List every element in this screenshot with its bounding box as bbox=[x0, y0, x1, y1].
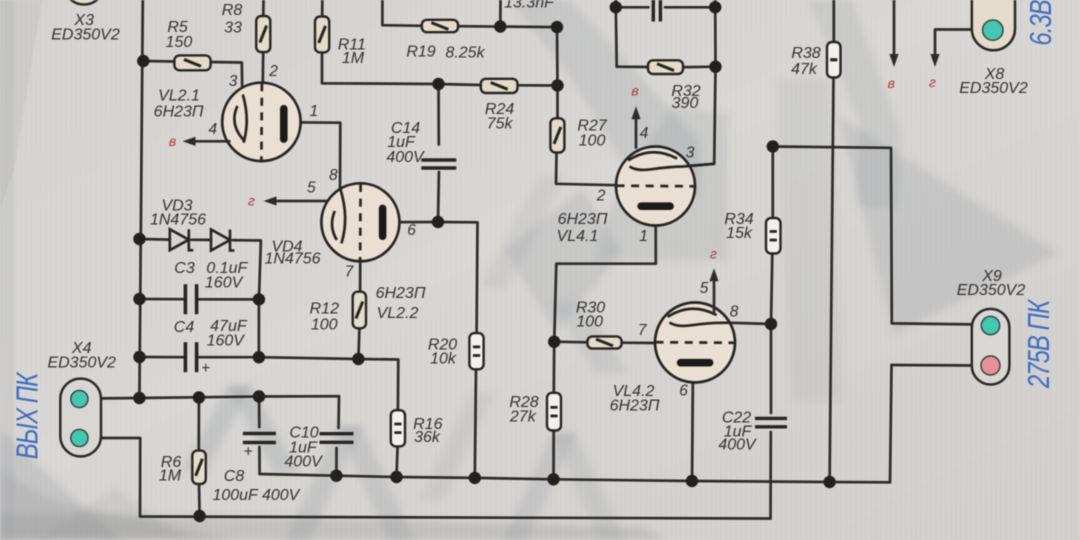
resistor R38 47k bbox=[827, 42, 841, 78]
wire: top edge down to R19 left bbox=[382, 0, 421, 26]
wire: node up to top edge bbox=[714, 0, 717, 7]
wire: top edge into R11 bbox=[321, 0, 324, 17]
node: C4 right bbox=[253, 351, 265, 363]
wire: VL4.2 pin 6 (anode) down to bus A bbox=[692, 366, 693, 481]
node: R19 right rail bbox=[551, 21, 563, 33]
node: R12 bottom bbox=[352, 353, 364, 365]
wire: VL4.1 pin 1 (anode) down, left, down to node bbox=[554, 211, 656, 342]
wire: R12 node right and down to R16 bbox=[358, 359, 398, 410]
svg-text:36k: 36k bbox=[414, 429, 441, 446]
resistor R12 100 bbox=[353, 292, 366, 329]
node: VL4.2 cathode / C22 / R34 bbox=[765, 318, 777, 330]
node: C3 right bbox=[253, 293, 265, 305]
wire: node to R30 left bbox=[554, 340, 587, 343]
resistor R6 1M bbox=[192, 451, 206, 484]
svg-text:ED350V2: ED350V2 bbox=[957, 282, 1026, 299]
svg-text:VL2.2: VL2.2 bbox=[377, 305, 419, 322]
wire: rail to VD3 anode bbox=[140, 238, 170, 241]
svg-text:400V: 400V bbox=[284, 454, 323, 471]
wire: to X9 pin 2 (pink) bbox=[892, 364, 982, 367]
wire: rail to C3 left plate bbox=[140, 298, 184, 301]
wire: C8 bottom plate down to bus A start bbox=[258, 447, 261, 474]
node: R11/C14/R24 bbox=[432, 78, 444, 90]
wire: loop right column bbox=[714, 7, 717, 66]
resistor R28 27k bbox=[547, 393, 561, 431]
wire: 275V line right, down, to X9 pin 1 (teal) bbox=[773, 147, 982, 325]
wire: node down to VL4.1 pin 3 (cathode) bbox=[683, 67, 716, 167]
svg-text:1N4756: 1N4756 bbox=[264, 251, 320, 268]
arrow: heater supply net 'v' (top right) bbox=[889, 54, 898, 67]
resistor R19 8.25k bbox=[422, 20, 458, 32]
svg-text:г: г bbox=[929, 74, 936, 90]
wire: top edge into R38 bbox=[832, 0, 835, 42]
svg-text:C3: C3 bbox=[174, 260, 195, 277]
wire: R30 right to VL4.2 pin 7 (grid) bbox=[622, 341, 656, 344]
svg-text:ED350V2: ED350V2 bbox=[959, 80, 1028, 97]
wire: node up to R34 bbox=[771, 254, 772, 325]
svg-text:4: 4 bbox=[640, 125, 649, 142]
svg-text:100: 100 bbox=[311, 316, 338, 333]
svg-text:390: 390 bbox=[672, 95, 699, 112]
node: C14 / VL2.2 anode / R20 bbox=[432, 216, 444, 228]
resistor R24 75k bbox=[481, 79, 518, 93]
resistor R30 100 bbox=[587, 336, 621, 348]
wire: R5 right to VL2.1 pin 3 (cathode) bbox=[211, 62, 243, 96]
node: C10 bottom on bus A bbox=[330, 470, 342, 482]
svg-text:7: 7 bbox=[638, 322, 648, 339]
svg-text:6Н23П: 6Н23П bbox=[558, 211, 608, 228]
wire: R34 up to 275V node bbox=[771, 147, 774, 219]
tube triode VL2.1 (6N23P) with grid/anode/cathode/heater bbox=[222, 83, 300, 161]
zener diode VD4 1N4756 bbox=[211, 230, 235, 251]
arrow: VL2.2 pin 5 heater to net 'g' bbox=[264, 196, 329, 205]
wire: R19 right to rail node, via 13.3nF tap bbox=[458, 25, 557, 29]
wire: C10 bottom to bus A bbox=[335, 448, 338, 476]
connector X3 ED350V2 (cut off at top) bbox=[64, 0, 105, 5]
node: R38 bottom on bus A bbox=[823, 476, 835, 488]
svg-text:3: 3 bbox=[686, 144, 695, 161]
wire: X4 pin 1 to rail bbox=[88, 397, 139, 400]
capacitor 13.3nF (cut off at top edge) bbox=[653, 0, 660, 22]
svg-text:6Н23П: 6Н23П bbox=[376, 285, 426, 302]
wire: R12 node left to C4 node bbox=[259, 357, 359, 359]
svg-text:1: 1 bbox=[639, 228, 648, 245]
wire: node right and down to R20 bbox=[438, 222, 478, 333]
capacitor C22 1uF 400V bbox=[755, 418, 787, 426]
svg-text:6: 6 bbox=[407, 222, 416, 239]
node: rail / VD3 bbox=[133, 233, 145, 245]
svg-text:160V: 160V bbox=[207, 333, 246, 350]
svg-text:275В ПК: 275В ПК bbox=[1021, 298, 1056, 389]
svg-text:г: г bbox=[710, 246, 717, 262]
svg-text:15k: 15k bbox=[726, 225, 753, 242]
wire: loop left column to R32 bbox=[616, 7, 648, 67]
svg-text:ED350V2: ED350V2 bbox=[47, 355, 116, 372]
resistor R20 10k bbox=[469, 333, 483, 369]
wire: node down into R27 bbox=[556, 86, 559, 119]
resistor R16 36k bbox=[391, 410, 405, 446]
VL4.2 cathode wavy line bbox=[670, 323, 732, 326]
svg-text:+: + bbox=[243, 444, 252, 461]
svg-text:10k: 10k bbox=[430, 350, 457, 367]
svg-text:3: 3 bbox=[229, 73, 238, 90]
wire: R32 right to node bbox=[683, 65, 716, 68]
svg-text:R8: R8 bbox=[222, 2, 243, 19]
svg-text:1: 1 bbox=[309, 103, 318, 120]
svg-text:в: в bbox=[169, 133, 176, 149]
svg-text:C4: C4 bbox=[174, 319, 195, 336]
node: rail / X4 pin1 line bbox=[133, 392, 145, 404]
svg-text:13.3nF: 13.3nF bbox=[504, 0, 555, 12]
arrow: VL2.1 pin 4 heater to net 'v' bbox=[183, 137, 231, 146]
wire: R12 down to node bbox=[358, 328, 359, 359]
wire: C4 right plate to node bbox=[199, 356, 259, 359]
wire: node down to R24/R27 node bbox=[556, 27, 559, 85]
wire: node to top capacitor left plate bbox=[616, 6, 649, 9]
wire: X4 line right through R6,C8 nodes, corner down to C10 bbox=[139, 396, 339, 428]
wire: node up to 13.3nF capacitor (off frame) bbox=[499, 0, 502, 27]
svg-text:27k: 27k bbox=[509, 409, 537, 426]
resistor R8 33 bbox=[256, 16, 270, 52]
wire: C22 top to VL4.2 pin 8 node bbox=[770, 324, 773, 413]
resistor R32 390 bbox=[648, 60, 683, 74]
connector X4 ED350V2 with two pins bbox=[60, 379, 101, 457]
wire: top edge down to arrow (heater B) bbox=[893, 0, 896, 57]
svg-text:2: 2 bbox=[596, 187, 606, 204]
wire: node down to R6 bbox=[197, 398, 200, 451]
svg-text:2: 2 bbox=[268, 63, 278, 80]
node: rail / C4 bbox=[133, 351, 145, 363]
node: R20 bottom on bus A bbox=[469, 472, 481, 484]
wire: top edge to R32 loop left node bbox=[614, 0, 617, 7]
wire: node down to C8 top plate bbox=[258, 397, 261, 428]
wire: bottom bus A bbox=[260, 474, 890, 482]
svg-text:4: 4 bbox=[208, 121, 217, 138]
tube triode VL2.2 (6N23P) bbox=[321, 183, 399, 261]
node: C8 top bbox=[253, 390, 265, 402]
wire: bus A right end up to X9 pin 2 line bbox=[890, 365, 892, 482]
wire: left vertical rail from X3 down to X4 line bbox=[139, 0, 142, 398]
resistor R27 100 bbox=[550, 118, 564, 152]
capacitor C14 1uF 400V bbox=[421, 160, 456, 168]
wire: VL4.2 pin 8 (cathode) to node bbox=[731, 323, 771, 324]
resistor R5 150 bbox=[174, 55, 210, 70]
node: VL4.2 anode on bus A bbox=[686, 475, 698, 487]
wire: R8 to VL2.1 pin 2 (grid) bbox=[261, 52, 264, 84]
svg-text:100: 100 bbox=[579, 133, 606, 150]
node: R24 right / R27 top bbox=[551, 79, 563, 91]
capacitor C10 1uF 400V bbox=[320, 434, 354, 443]
wire: R24 right to R27 node bbox=[518, 84, 558, 87]
wire: R38 down to bus A (crosses 275V line) bbox=[830, 78, 834, 483]
wire: R28 down to bus A bbox=[552, 431, 555, 480]
svg-text:8: 8 bbox=[730, 303, 739, 320]
connector X8 ED350V2 (cut off at top) with teal pin bbox=[972, 0, 1015, 50]
wire: top capacitor right plate to node bbox=[665, 6, 715, 9]
wire: node down to R28 bbox=[552, 342, 555, 393]
wire: VL2.2 pin 7 (grid) down to R12 bbox=[359, 261, 362, 291]
node: rail / C3 bbox=[133, 293, 145, 305]
svg-text:400V: 400V bbox=[718, 437, 757, 454]
svg-text:VL4.1: VL4.1 bbox=[557, 228, 599, 245]
svg-text:VL2.1: VL2.1 bbox=[158, 88, 200, 105]
svg-text:7: 7 bbox=[345, 263, 355, 280]
svg-text:47k: 47k bbox=[791, 61, 818, 78]
svg-text:6Н23П: 6Н23П bbox=[154, 103, 204, 120]
svg-text:6.3В: 6.3В bbox=[1023, 0, 1058, 46]
svg-text:R19: R19 bbox=[406, 43, 435, 60]
capacitor C4 47uF 160V (polarized) bbox=[185, 342, 196, 372]
svg-text:ED350V2: ED350V2 bbox=[51, 26, 120, 43]
resistor R11 1M bbox=[315, 17, 329, 53]
wire: node down to C14 top plate bbox=[437, 84, 440, 145]
svg-text:1M: 1M bbox=[342, 50, 365, 67]
node: 13.3nF tap bbox=[494, 20, 506, 32]
node: R6 bottom on bus B bbox=[193, 510, 205, 522]
svg-text:5: 5 bbox=[307, 179, 316, 196]
wire: VD3 to VD4 bbox=[192, 238, 212, 241]
svg-text:R38: R38 bbox=[791, 45, 820, 62]
connector X9 ED350V2 with teal and pink pins bbox=[972, 309, 1010, 385]
node: R32 loop top-right bbox=[709, 1, 721, 13]
wire: rail to R5 left bbox=[143, 60, 174, 63]
node: R6 top bbox=[193, 391, 205, 403]
wire: R27 down and right to VL4.1 pin 2 (grid) bbox=[556, 153, 616, 186]
svg-text:в: в bbox=[631, 82, 638, 98]
wire: C14 bottom plate down to VL2.2 anode node bbox=[437, 172, 441, 222]
svg-text:33: 33 bbox=[224, 20, 242, 37]
zener diode VD3 1N4756 bbox=[170, 229, 194, 250]
svg-text:8: 8 bbox=[329, 167, 338, 184]
arrow: X8 to heater net 'g' (top right) bbox=[930, 54, 939, 67]
svg-text:400V: 400V bbox=[386, 149, 425, 166]
wire: R11 down and right to C14 node bbox=[322, 52, 439, 84]
wire: bus B corner up to C22 bottom bbox=[769, 432, 772, 519]
svg-text:C8: C8 bbox=[224, 468, 245, 485]
wire: R16 down to bottom bus A bbox=[397, 446, 398, 477]
wire: VD4 cathode right and down to C3 node bbox=[233, 240, 261, 299]
svg-text:1M: 1M bbox=[159, 468, 182, 485]
svg-text:75k: 75k bbox=[487, 116, 514, 133]
svg-text:ВЫХ ПК: ВЫХ ПК bbox=[10, 371, 45, 459]
wire: X4 pin 2 down and right - bus B bbox=[88, 438, 771, 519]
capacitor C3 0.1uF 160V bbox=[185, 284, 196, 314]
photo bottom shading bbox=[0, 468, 665, 540]
arrow: VL4.1 pin 4 heater up to net 'v' bbox=[631, 106, 640, 149]
svg-text:г: г bbox=[248, 192, 255, 208]
wire: VL2.1 pin 1 (anode) to VL2.2 pin 8 (cathode) bbox=[288, 122, 341, 188]
node: R16 bottom on bus A bbox=[390, 471, 402, 483]
svg-text:в: в bbox=[888, 75, 895, 91]
svg-text:1N4756: 1N4756 bbox=[150, 212, 206, 229]
tube triode VL4.1 (6N23P) bbox=[616, 147, 695, 226]
svg-text:R12: R12 bbox=[310, 301, 339, 318]
svg-text:150: 150 bbox=[166, 34, 193, 51]
wire: left node up to top edge bbox=[614, 0, 617, 7]
node: VL4.1 anode / R30 / R28 bbox=[548, 336, 560, 348]
node: R34 top / 275V line bbox=[767, 140, 779, 152]
node: R32 right bbox=[709, 60, 721, 72]
wire: C14 node to R24 left bbox=[439, 84, 481, 85]
node: R28 bottom on bus A bbox=[547, 473, 559, 485]
svg-text:5: 5 bbox=[700, 280, 709, 297]
wire: X8 pin (teal) left and down to arrow bbox=[935, 30, 982, 58]
wire: rail to C4 left plate bbox=[140, 356, 184, 359]
VL4.1 cathode wavy line bbox=[630, 164, 715, 170]
svg-text:160V: 160V bbox=[205, 275, 244, 292]
svg-text:8.25k: 8.25k bbox=[445, 45, 485, 62]
wire: top edge into R8 bbox=[262, 0, 265, 16]
node: R32 loop top-left bbox=[610, 1, 622, 13]
svg-text:6Н23П: 6Н23П bbox=[610, 398, 660, 415]
svg-text:100uF 400V: 100uF 400V bbox=[212, 487, 300, 504]
svg-text:100: 100 bbox=[576, 314, 603, 331]
wire: C3 node down to C4 node bbox=[258, 299, 261, 357]
arrow: VL4.2 pin 5 heater up to net 'g' bbox=[709, 268, 718, 315]
svg-text:+: + bbox=[201, 360, 210, 377]
wire: R6 down to bus B bbox=[198, 484, 201, 516]
svg-text:6: 6 bbox=[679, 383, 688, 400]
tube triode VL4.2 (6N23P) bbox=[655, 303, 735, 383]
wire: C3 right plate to node bbox=[199, 298, 259, 301]
wire: VL2.2 pin 6 (anode) to C14 node bbox=[386, 221, 438, 224]
resistor R34 15k bbox=[766, 218, 781, 254]
node: rail / R5 bbox=[137, 55, 149, 67]
capacitor C8 100uF 400V (polarized) bbox=[243, 434, 276, 443]
wire: R20 down to bottom bus A bbox=[475, 369, 476, 478]
